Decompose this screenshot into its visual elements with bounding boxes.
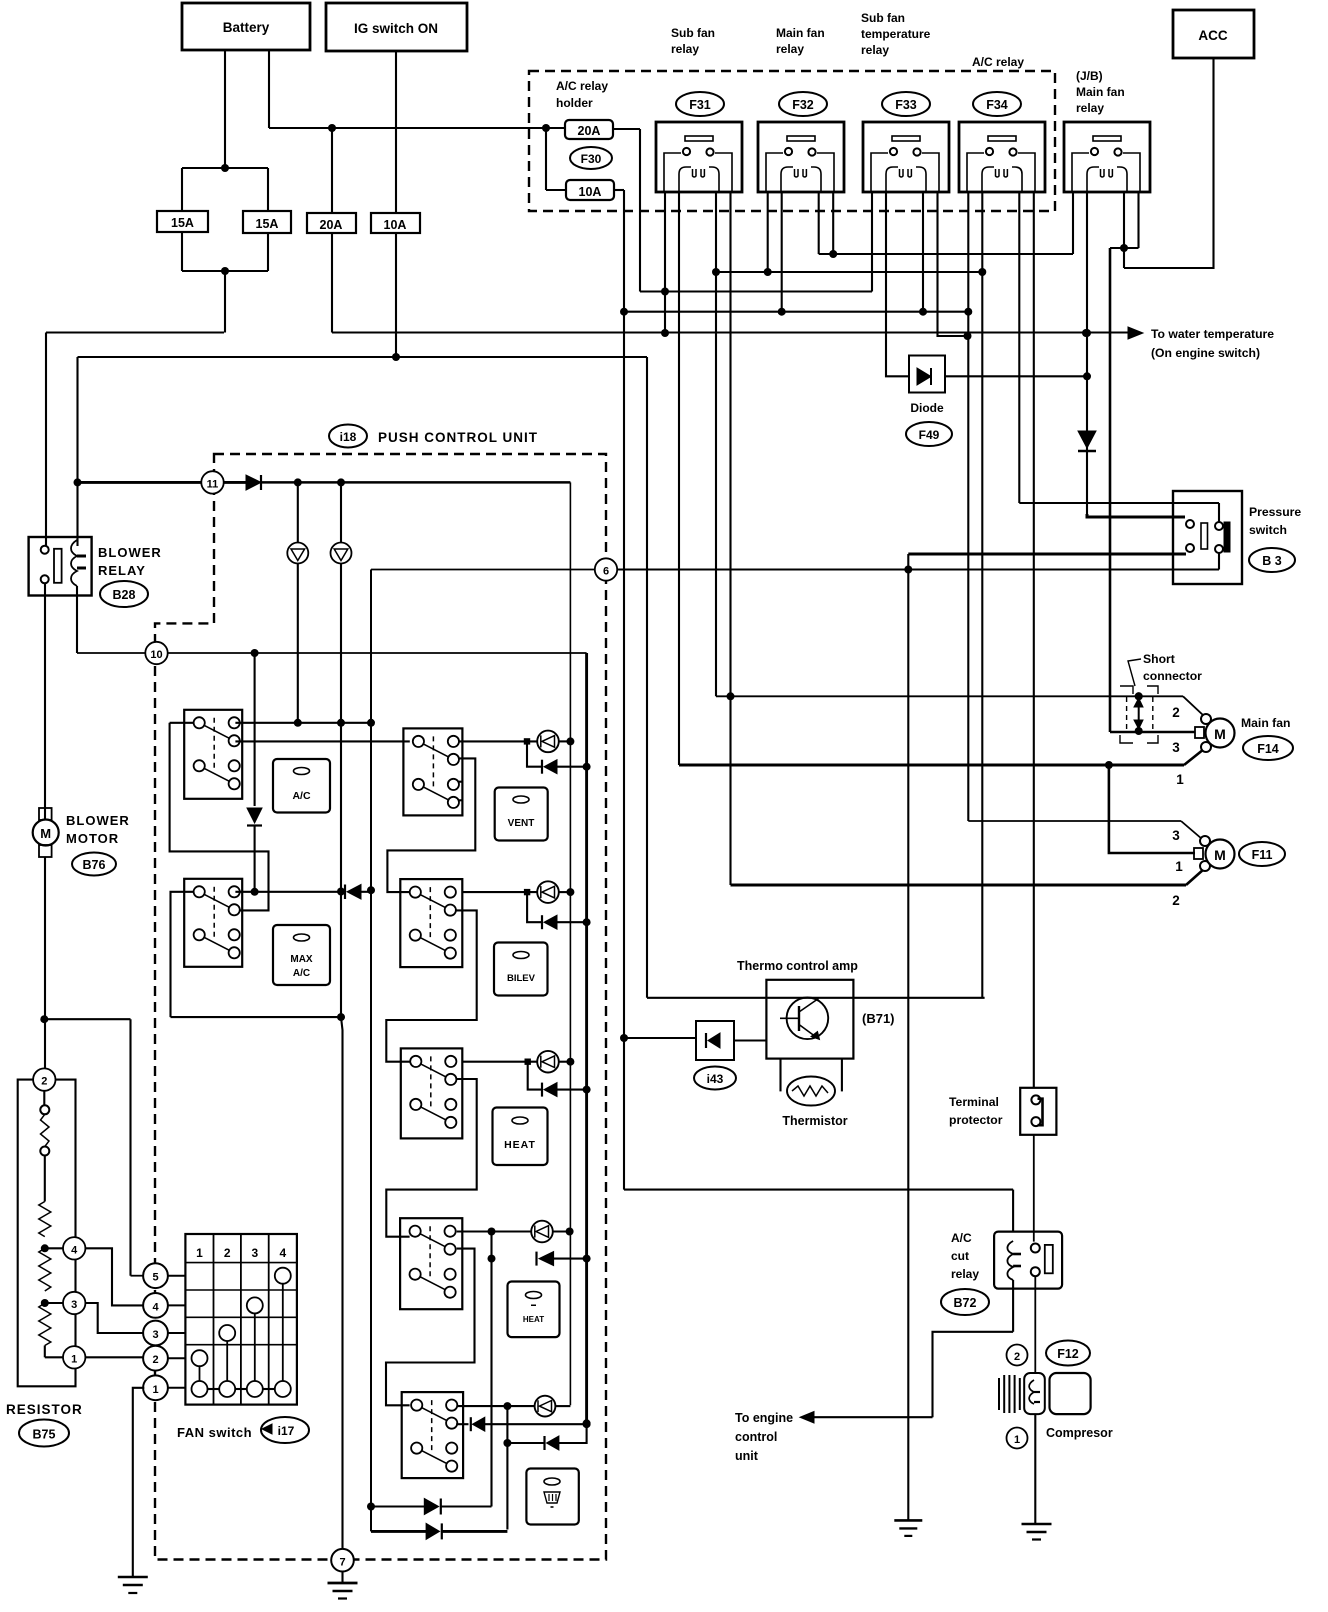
ACC box xyxy=(1173,10,1254,58)
svg-text:A/C: A/C xyxy=(292,790,311,802)
wire to blower relay contact xyxy=(46,333,224,547)
wire resistor node 3 to fan switch node 3 xyxy=(85,1303,143,1333)
wire fan switch node 1 to ground xyxy=(133,1388,145,1577)
VENT button xyxy=(495,788,548,841)
ground below compressor xyxy=(1022,1524,1052,1540)
fan switch label xyxy=(177,1425,252,1440)
main fan label xyxy=(1241,716,1290,730)
svg-text:temperature: temperature xyxy=(861,27,931,41)
wire F31 pin4 down xyxy=(727,192,735,885)
svg-text:1: 1 xyxy=(1175,859,1183,874)
push control unit dashed box xyxy=(155,454,606,1560)
pressure switch designator B3 xyxy=(1249,548,1295,572)
node 11 xyxy=(201,471,223,493)
svg-text:RELAY: RELAY xyxy=(98,563,146,578)
wire 10A fuse down xyxy=(392,233,400,361)
svg-text:3: 3 xyxy=(1172,740,1180,755)
wire amp output row xyxy=(647,997,985,999)
to engine control unit label xyxy=(735,1411,793,1463)
svg-text:Compresor: Compresor xyxy=(1046,1426,1113,1440)
F31 designator xyxy=(676,92,724,116)
VENT switch lower stubs xyxy=(459,782,462,801)
F32 designator xyxy=(779,92,827,116)
terminal protector xyxy=(1020,1088,1056,1135)
fan switch grid xyxy=(185,1234,297,1405)
svg-text:4: 4 xyxy=(279,1246,286,1260)
fuse 10A xyxy=(371,213,420,233)
wire J/B pin2 to pressure switch xyxy=(1087,514,1185,517)
svg-text:20A: 20A xyxy=(320,218,343,232)
A/C switch xyxy=(184,710,242,799)
svg-text:(On engine switch): (On engine switch) xyxy=(1151,346,1260,360)
wire F33 pin4 to sub fan terminal 3 xyxy=(968,820,1181,822)
wire F33 pin3 down xyxy=(919,192,927,316)
blower relay designator B28 xyxy=(100,581,148,607)
wire down to thermo control amp xyxy=(646,357,648,998)
svg-text:relay: relay xyxy=(776,42,804,56)
svg-text:relay: relay xyxy=(861,43,889,57)
svg-text:B72: B72 xyxy=(954,1296,977,1310)
svg-text:F32: F32 xyxy=(792,98,814,112)
wire pressure switch to ground line xyxy=(908,554,1186,1520)
node 7 ground lead xyxy=(341,1572,343,1584)
VENT switch chain wire xyxy=(387,758,475,892)
diode after node 11 xyxy=(224,475,262,490)
wire IG switch to 10A fuse xyxy=(395,51,397,213)
wire DEF rail down xyxy=(503,1406,511,1529)
wire battery to A/C relay holder xyxy=(269,50,565,132)
fuse holder F30 xyxy=(570,147,612,169)
svg-text:4: 4 xyxy=(71,1244,78,1256)
svg-text:F49: F49 xyxy=(919,428,940,442)
A/C button xyxy=(273,759,330,813)
svg-text:FAN switch: FAN switch xyxy=(177,1425,252,1440)
push control unit designator i18 xyxy=(329,425,367,448)
svg-text:BLOWER: BLOWER xyxy=(98,545,162,560)
svg-text:10A: 10A xyxy=(384,218,407,232)
compressor terminal 1 xyxy=(1007,1428,1028,1449)
BILEV switch xyxy=(400,879,462,967)
wire F31 pin1 down xyxy=(661,192,669,333)
svg-text:B 3: B 3 xyxy=(1262,554,1282,568)
fuse 20A xyxy=(307,213,356,233)
BILEV switch chain wire xyxy=(386,910,476,1061)
A/C cut relay B72 xyxy=(994,1232,1062,1289)
wire F33 pin4 down with jog xyxy=(938,192,972,340)
short connector label xyxy=(1128,652,1202,686)
svg-text:3: 3 xyxy=(152,1329,158,1341)
node 10 xyxy=(145,642,167,664)
A/C switch row1 wire xyxy=(170,719,371,727)
svg-text:Diode: Diode xyxy=(910,401,944,415)
wire F34 pin2 down to thermo amp xyxy=(978,192,986,998)
wire ACC down xyxy=(1124,58,1214,268)
terminal protector label xyxy=(949,1095,1003,1127)
svg-text:3: 3 xyxy=(71,1299,77,1311)
svg-text:6: 6 xyxy=(603,566,609,578)
rear HEAT switch xyxy=(400,1218,462,1309)
wire main fan terminal 3 xyxy=(1110,731,1195,734)
svg-text:To water temperature: To water temperature xyxy=(1151,327,1274,341)
HEAT button xyxy=(493,1108,548,1166)
diode F49 label xyxy=(906,401,952,446)
blower motor label xyxy=(66,813,130,846)
svg-text:VENT: VENT xyxy=(508,818,535,829)
wire to fan switch node 5 xyxy=(44,1019,144,1275)
IG switch ON box xyxy=(326,3,467,51)
svg-text:switch: switch xyxy=(1249,523,1287,537)
relay F31 sub fan relay xyxy=(656,122,742,192)
wire resistor node 1 to fan switch node 2 xyxy=(85,1356,143,1358)
F11 terminal 2 label xyxy=(1172,893,1180,908)
junctions on water temperature line xyxy=(661,329,1090,337)
svg-text:A/C: A/C xyxy=(951,1231,972,1245)
A/C switch chain wire xyxy=(170,723,269,911)
wire 10A holder fuse output down to A/C cut relay xyxy=(614,190,628,1190)
svg-text:unit: unit xyxy=(735,1449,759,1463)
svg-text:protector: protector xyxy=(949,1113,1003,1127)
fuse 15A left xyxy=(157,211,208,232)
svg-text:2: 2 xyxy=(1172,705,1180,720)
F11 terminal 3 label xyxy=(1172,828,1180,843)
svg-text:5: 5 xyxy=(152,1272,158,1284)
HEAT switch xyxy=(401,1048,463,1138)
svg-text:i17: i17 xyxy=(278,1424,295,1438)
svg-text:2: 2 xyxy=(1172,893,1180,908)
VENT switch xyxy=(403,728,462,815)
wire F34 pin1 down xyxy=(964,192,972,821)
main fan relay label xyxy=(776,26,825,56)
svg-text:Thermo control amp: Thermo control amp xyxy=(737,959,858,973)
thermistor label xyxy=(782,1114,847,1128)
svg-text:(B71): (B71) xyxy=(862,1011,895,1026)
diode F49 symbol xyxy=(909,356,945,393)
svg-text:F11: F11 xyxy=(1252,848,1273,862)
svg-text:F31: F31 xyxy=(689,98,711,112)
svg-text:relay: relay xyxy=(671,42,699,56)
A/C relay holder dashed box xyxy=(529,71,1055,211)
svg-text:1: 1 xyxy=(1014,1434,1020,1446)
wire through diode i43 into amp xyxy=(624,1038,766,1041)
wire F32 pin2 down xyxy=(778,192,786,316)
compressor designator F12 xyxy=(1046,1341,1090,1366)
DEF lamp xyxy=(457,1396,570,1417)
sub fan designator F11 xyxy=(1239,842,1285,866)
svg-text:Pressure: Pressure xyxy=(1249,505,1301,519)
sub fan motor F11 xyxy=(1194,836,1235,871)
diode to pressure switch xyxy=(1078,431,1096,451)
terminal 2 label xyxy=(1172,705,1180,720)
A/C cut relay label xyxy=(951,1231,979,1281)
svg-text:15A: 15A xyxy=(256,217,279,231)
svg-text:ACC: ACC xyxy=(1198,28,1227,43)
svg-text:20A: 20A xyxy=(578,124,601,138)
designator i43 xyxy=(694,1067,736,1090)
svg-text:1: 1 xyxy=(152,1384,158,1396)
to water temperature arrow and label xyxy=(1128,327,1274,360)
svg-text:connector: connector xyxy=(1143,669,1202,683)
A/C relay label xyxy=(972,55,1024,69)
ground below node 7 xyxy=(328,1583,358,1599)
wire diode F49 output xyxy=(945,375,1087,377)
svg-text:B75: B75 xyxy=(33,1428,56,1442)
svg-text:10: 10 xyxy=(150,649,162,661)
svg-text:Terminal: Terminal xyxy=(949,1095,999,1109)
wire F33 pin2 to diode F49 xyxy=(886,192,909,376)
resistor B75 outer frame xyxy=(18,1080,76,1387)
resistor designator B75 xyxy=(19,1420,69,1447)
wire J/B pin2 down xyxy=(1083,192,1091,514)
svg-text:Thermistor: Thermistor xyxy=(782,1114,847,1128)
svg-text:i18: i18 xyxy=(340,430,357,444)
svg-text:relay: relay xyxy=(951,1267,979,1281)
wire to 10A holder fuse xyxy=(546,128,566,190)
wire blower relay to blower motor xyxy=(44,583,46,820)
svg-text:Battery: Battery xyxy=(223,20,270,35)
wire F31 pin4 to sub fan terminal 2 xyxy=(731,884,1187,887)
wire F31 pin2 down xyxy=(678,192,680,765)
blower motor B76 xyxy=(33,808,59,857)
lead to F14 terminal 1 xyxy=(1184,749,1204,765)
fan switch node 2 xyxy=(143,1346,185,1371)
node 7 xyxy=(331,1549,354,1572)
svg-text:Sub fan: Sub fan xyxy=(671,26,715,40)
svg-text:2: 2 xyxy=(152,1354,158,1366)
fuse 20A in holder xyxy=(565,120,613,139)
VENT lamp and diode xyxy=(459,731,587,774)
svg-text:3: 3 xyxy=(1172,828,1180,843)
svg-text:F14: F14 xyxy=(1257,742,1279,756)
wire compressor to ground xyxy=(1034,1414,1036,1524)
push control unit label xyxy=(378,430,538,445)
ground below fan switch xyxy=(118,1577,148,1593)
svg-text:Main fan: Main fan xyxy=(1076,85,1125,99)
svg-text:▬: ▬ xyxy=(531,1302,536,1308)
resistor node 1 xyxy=(45,1346,86,1368)
svg-text:RESISTOR: RESISTOR xyxy=(6,1402,83,1417)
node 10 vertical rail xyxy=(583,653,591,1427)
MAX A/C chain wire xyxy=(171,892,342,1017)
ignition feed row xyxy=(78,356,648,358)
HEAT switch chain wire xyxy=(386,1079,476,1237)
MAX A/C button xyxy=(273,925,330,985)
diode i43 xyxy=(696,1021,734,1060)
svg-text:PUSH CONTROL UNIT: PUSH CONTROL UNIT xyxy=(378,430,538,445)
terminal 1 label xyxy=(1176,772,1184,787)
fuse 15A right xyxy=(243,211,291,233)
svg-text:2: 2 xyxy=(224,1246,231,1260)
svg-text:MOTOR: MOTOR xyxy=(66,831,119,846)
thermo control amp B71 with transistor xyxy=(766,980,853,1059)
svg-text:To engine: To engine xyxy=(735,1411,793,1425)
svg-text:i43: i43 xyxy=(707,1072,724,1086)
BILEV lamp and diode xyxy=(462,881,586,929)
resistor label xyxy=(6,1402,83,1417)
node 11 supply row xyxy=(261,478,570,486)
rear HEAT diode xyxy=(537,1252,587,1266)
F33 designator xyxy=(882,92,930,116)
fan switch designator i17 xyxy=(261,1417,309,1443)
wire F14 terminal 2 row xyxy=(716,692,1183,700)
wire node 6 to pressure switch xyxy=(606,566,1219,574)
wire F32 pin3 down xyxy=(818,192,820,254)
wire 20A fuse to water temperature line xyxy=(332,233,1128,333)
wire resistor node 4 to fan switch node 4 xyxy=(85,1248,143,1305)
node 6 row to internal rail xyxy=(371,569,595,571)
terminal 3 label xyxy=(1172,740,1180,755)
wire to sub fan terminal 1 xyxy=(1109,765,1195,853)
svg-text:HEAT: HEAT xyxy=(523,1315,544,1324)
svg-text:Main fan: Main fan xyxy=(1241,716,1290,730)
HEAT lamp and diode xyxy=(462,1051,586,1097)
svg-text:Sub fan: Sub fan xyxy=(861,11,905,25)
svg-text:control: control xyxy=(735,1430,777,1444)
resistor B75 elements xyxy=(39,1091,51,1358)
svg-text:BLOWER: BLOWER xyxy=(66,813,130,828)
svg-text:MAX: MAX xyxy=(290,954,313,965)
wire J/B pin1 down xyxy=(1072,192,1074,254)
svg-text:1: 1 xyxy=(71,1353,77,1365)
svg-text:1: 1 xyxy=(1176,772,1184,787)
lead to F11 terminal 2 xyxy=(1186,869,1204,885)
pressure switch label xyxy=(1249,505,1301,537)
svg-text:10A: 10A xyxy=(579,185,602,199)
svg-text:A/C: A/C xyxy=(293,968,310,979)
wire to engine control unit with arrow xyxy=(800,1412,933,1424)
node 11 vertical rail xyxy=(569,482,571,1405)
blower relay label xyxy=(98,545,162,578)
svg-text:15A: 15A xyxy=(171,216,194,230)
main fan motor F14 xyxy=(1195,714,1235,752)
relay F32 main fan relay xyxy=(758,122,844,192)
designator B71 xyxy=(862,1011,895,1026)
rear HEAT chain wire xyxy=(386,1249,475,1406)
wire F31 pin2 to main fan terminal 1 xyxy=(679,761,1184,769)
thermo control amp label xyxy=(737,959,858,973)
fan switch contacts xyxy=(192,1268,291,1397)
svg-text:M: M xyxy=(40,826,51,841)
lamp wire rail down to node 7 xyxy=(337,564,345,1550)
rear HEAT button xyxy=(508,1282,560,1338)
svg-text:Short: Short xyxy=(1143,652,1175,666)
wire F34 pin3 down xyxy=(1018,192,1020,503)
bottom diode row to rear HEAT rail xyxy=(371,1499,492,1515)
wire F31 pin3 down xyxy=(712,192,720,696)
pressure switch lower pin internal wire xyxy=(1218,553,1220,570)
blower motor designator B76 xyxy=(72,853,116,876)
A/C cut relay designator B72 xyxy=(941,1289,989,1315)
svg-text:B28: B28 xyxy=(113,588,136,602)
fuse block parallel wires xyxy=(182,168,268,275)
relay J/B main fan relay xyxy=(1064,122,1150,192)
svg-text:BILEV: BILEV xyxy=(507,973,536,984)
svg-text:7: 7 xyxy=(339,1557,345,1569)
row connecting F32 pin3 to J/B pin1 xyxy=(819,253,1073,255)
diode row to DEF rail xyxy=(507,1424,586,1450)
node 6 xyxy=(595,558,617,580)
wire A/C switch to VENT switch xyxy=(235,740,409,742)
rear HEAT lamp xyxy=(457,1221,574,1243)
svg-text:4: 4 xyxy=(152,1301,159,1313)
relay F33 sub fan temperature relay xyxy=(863,122,949,192)
resistor node 4 xyxy=(45,1237,86,1259)
DEF switch xyxy=(402,1392,463,1478)
wire F32 pin1 down xyxy=(764,192,772,276)
thermistor xyxy=(781,1059,842,1106)
svg-text:3: 3 xyxy=(251,1246,258,1260)
F34 designator xyxy=(973,92,1021,116)
svg-text:IG switch ON: IG switch ON xyxy=(354,21,438,36)
fan switch node 4 xyxy=(143,1293,185,1318)
main fan designator F14 xyxy=(1243,736,1293,760)
fan switch column numbers xyxy=(196,1246,286,1260)
J/B main fan relay label xyxy=(1076,69,1125,115)
wire A/C cut relay to compressor xyxy=(1034,1276,1036,1373)
diode node 10 branch xyxy=(247,653,262,896)
node 10 row xyxy=(168,649,587,657)
bottom diode row to DEF rail xyxy=(371,1523,507,1539)
svg-text:1: 1 xyxy=(196,1246,203,1260)
wire J/B pin4 jog xyxy=(1110,192,1139,248)
svg-text:M: M xyxy=(1214,847,1226,863)
fan switch node 1 xyxy=(143,1375,185,1400)
compressor label xyxy=(1046,1426,1113,1440)
sub fan relay label xyxy=(671,26,715,56)
fan switch node 5 xyxy=(143,1263,185,1288)
wire lamp branch down to diode row xyxy=(488,1232,496,1507)
wire to blower relay coil xyxy=(74,357,82,546)
wire blower relay coil to node 10 xyxy=(77,586,145,653)
svg-text:cut: cut xyxy=(951,1249,969,1263)
wire J/B pin3 down xyxy=(1120,192,1128,268)
pressure switch B3 xyxy=(1173,491,1242,584)
row from 10A fuse to F34 pin1 xyxy=(624,311,968,313)
sub fan temperature relay label xyxy=(861,11,931,57)
svg-text:2: 2 xyxy=(41,1076,47,1088)
svg-text:F12: F12 xyxy=(1057,1347,1079,1361)
wire fuse block down xyxy=(224,271,226,333)
DEF button xyxy=(526,1469,578,1525)
row connecting F31 pin3 to F34 pin2 xyxy=(716,271,982,273)
svg-text:F30: F30 xyxy=(581,152,602,166)
wire terminal protector to A/C cut relay xyxy=(1033,1135,1035,1242)
battery box xyxy=(182,3,310,50)
svg-text:Main fan: Main fan xyxy=(776,26,825,40)
node 6 vertical rail xyxy=(367,570,375,1532)
wire F34 pin3 to pressure switch xyxy=(1019,503,1219,522)
compressor xyxy=(999,1373,1091,1414)
fuse 10A in holder xyxy=(566,180,614,200)
wire F33 pin1 down xyxy=(871,192,873,292)
svg-text:(J/B): (J/B) xyxy=(1076,69,1103,83)
lamp left of A/C switch xyxy=(287,482,308,722)
wire supply to A/C cut relay coil xyxy=(624,1190,1013,1232)
resistor node 3 xyxy=(45,1292,86,1314)
svg-text:holder: holder xyxy=(556,96,593,110)
short connector xyxy=(1120,686,1158,743)
wire F32 pin4 down xyxy=(829,192,837,258)
fan switch node 3 xyxy=(143,1321,185,1346)
wire to node 11 xyxy=(78,481,202,484)
svg-text:A/C relay: A/C relay xyxy=(556,79,608,93)
MAX A/C switch xyxy=(184,879,242,967)
svg-text:F34: F34 xyxy=(986,98,1008,112)
resistor node 2 xyxy=(33,1068,55,1090)
wire blower motor to resistor xyxy=(40,857,48,1068)
wire F34 pin4 down to terminal protector xyxy=(1033,192,1035,1088)
wire to main fan terminal 3 xyxy=(1109,248,1112,732)
lead to F14 terminal 2 xyxy=(1183,696,1204,716)
